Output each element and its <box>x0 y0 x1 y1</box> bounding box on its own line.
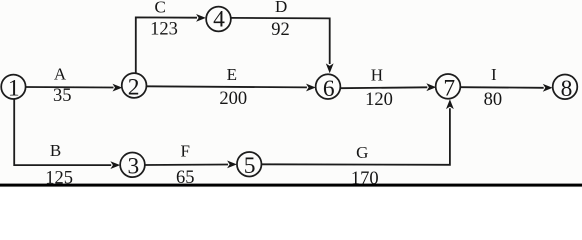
svg-text:C: C <box>155 0 166 17</box>
svg-text:80: 80 <box>484 90 503 110</box>
svg-text:120: 120 <box>365 90 393 110</box>
svg-text:5: 5 <box>244 153 256 179</box>
svg-text:A: A <box>54 65 67 84</box>
svg-text:8: 8 <box>561 76 573 102</box>
svg-text:F: F <box>180 142 189 161</box>
svg-text:6: 6 <box>323 76 335 102</box>
svg-text:G: G <box>356 143 368 162</box>
svg-text:123: 123 <box>150 19 178 39</box>
svg-text:35: 35 <box>53 86 72 106</box>
svg-text:2: 2 <box>128 74 140 100</box>
svg-text:3: 3 <box>128 154 140 180</box>
svg-text:7: 7 <box>443 76 455 102</box>
svg-text:200: 200 <box>219 89 247 109</box>
svg-text:I: I <box>491 65 497 84</box>
svg-text:H: H <box>371 66 383 85</box>
svg-text:E: E <box>227 65 237 84</box>
svg-text:4: 4 <box>213 7 225 33</box>
svg-text:D: D <box>275 0 287 16</box>
svg-text:92: 92 <box>271 20 290 40</box>
svg-text:1: 1 <box>8 75 20 101</box>
svg-text:B: B <box>50 141 61 160</box>
